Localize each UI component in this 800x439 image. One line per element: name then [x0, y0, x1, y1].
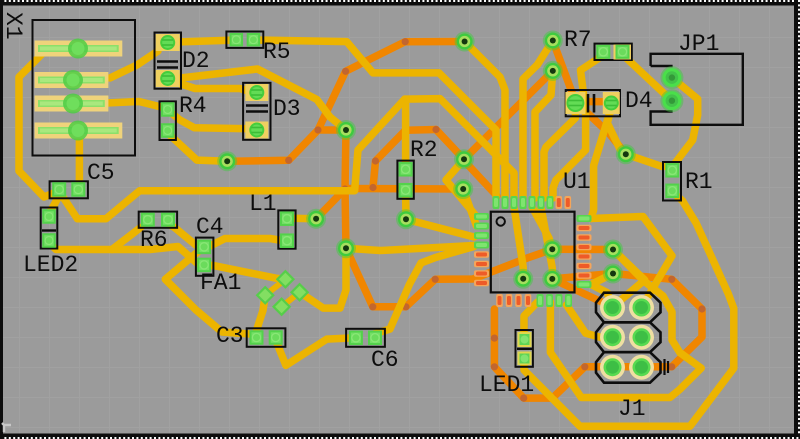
via V12 [336, 120, 356, 140]
capacitor C3 [247, 328, 286, 347]
junction dot [369, 184, 376, 191]
svg-text:R4: R4 [179, 93, 207, 119]
connector X1 [33, 20, 136, 156]
svg-text:D4: D4 [625, 88, 653, 114]
wire T3 to U1 top pad 3 [405, 99, 514, 198]
wire via V5 wrap around J1 to U1 bottom pad [550, 250, 701, 398]
wire C4 top to L1 bottom pad [210, 239, 285, 247]
wire C5 left valley then long horizontal rising to T3 [59, 99, 405, 219]
diode D4 [566, 90, 620, 116]
wire R5 right to U1 top pad 1 [255, 40, 496, 198]
wire via V11 to U1 left pad row2 [463, 189, 476, 226]
ic U1 body [491, 212, 575, 293]
svg-text:C6: C6 [371, 347, 399, 373]
svg-text:JP1: JP1 [678, 31, 719, 57]
junction dot [341, 185, 348, 192]
wire C4 bottom to FA1 diamond N [206, 265, 285, 279]
junction dot [581, 363, 588, 370]
wire via V6 through U1 pad to J1 pin1 [591, 274, 613, 308]
via V9 [513, 269, 533, 289]
wire R7 left down to U1 top pad 8 [553, 55, 604, 198]
junction dot [491, 335, 498, 342]
wire outer loop R1 bottom around to LED1 bottom [524, 192, 734, 426]
junction dot [520, 395, 527, 402]
wire via Va to U1 left pad row1 [446, 159, 477, 216]
wire D2 bottom to D3 top pad [172, 81, 250, 92]
svg-text:R2: R2 [410, 137, 438, 163]
wire FA1 diamond E to via V13 [300, 248, 346, 308]
wire orange via V3 diagonal to via Va [464, 71, 553, 159]
svg-text:R7: R7 [564, 27, 592, 53]
wire via V2 to U1 top pad 4 [523, 41, 553, 199]
junction dot [372, 157, 379, 164]
wire orange J1 row3 to U1 bottom pads [494, 309, 584, 398]
wire D4 right pad to via V4 [607, 106, 626, 154]
svg-text:C3: C3 [216, 323, 244, 349]
wire R6 right to C4 top pad [170, 225, 202, 247]
svg-text:FA1: FA1 [200, 270, 241, 296]
via V15 [217, 151, 237, 171]
wire U1 bottom pad to LED1 top [524, 302, 538, 334]
junction dot [402, 303, 409, 310]
wire U1 pad to inner via V7 [532, 207, 552, 249]
wire D4 left pad down to U1 top pad 6 [544, 105, 575, 198]
wire FA1 pair B [282, 292, 300, 307]
wire R1 top to JP1 top pad [672, 78, 698, 166]
wire X1 pad3 to R4 top pad [106, 102, 168, 109]
wire orange V8 to J1 pin1 [552, 279, 612, 307]
wire via V13 to U1 left pad row4 [346, 246, 474, 251]
wire U1 pad to inner via V9 [514, 207, 523, 279]
connector J1 [596, 293, 661, 323]
via V14 [306, 209, 326, 229]
wire U1 right pad1 to J1 pin2 [591, 217, 672, 308]
wire orange D4 to via V4 [575, 102, 625, 155]
junction dot [285, 157, 292, 164]
wire C3 right to C6 left pad [276, 338, 350, 365]
wire C6 right up to U1 left pad [374, 247, 474, 335]
fuse FA1 pads [256, 286, 275, 305]
svg-text:D2: D2 [182, 48, 210, 74]
wire orange D4 left to right pad [575, 98, 611, 106]
svg-text:R6: R6 [140, 227, 168, 253]
connector JP1 [651, 54, 743, 125]
wire U1 bottom pad to J1 pin3 [567, 305, 613, 338]
pad JP1 pin2 [660, 89, 683, 112]
junction dot [698, 305, 705, 312]
via V11 [453, 179, 473, 199]
via V7 [542, 239, 562, 259]
svg-text:LED2: LED2 [23, 252, 78, 278]
wire R7 right to JP1 bottom pad [623, 55, 672, 101]
junction dot [432, 276, 439, 283]
wire D2 top pad to R5 left pad [176, 40, 237, 42]
wire R4 top to D3 bottom pad [170, 112, 250, 129]
wire R4 bottom to via V15 [168, 133, 228, 161]
resistor R6 [139, 212, 177, 228]
wire L1 top to via V14 [290, 214, 316, 222]
wire U1 pad to inner via V8 [541, 207, 552, 279]
wire orange Ja down to via V13 [345, 189, 346, 248]
wire FA1 pair A [265, 279, 285, 295]
origin marker [2, 423, 11, 432]
wire orange V8 via V6 around to J1 row3 [552, 274, 702, 367]
pad JP1 pin1 [660, 66, 683, 89]
via V2 [543, 31, 563, 51]
capacitor C4 [196, 238, 214, 276]
wire X1 pad1 to C5 left pad [19, 44, 59, 197]
svg-text:C5: C5 [87, 160, 115, 186]
wire orange V12 down to junction Ja [345, 130, 346, 189]
wire orange V13 snake to via V7 [346, 248, 552, 306]
junction dot [314, 126, 321, 133]
resistor R2 [397, 161, 413, 199]
wire orange dot chain near R2 [373, 130, 436, 188]
board edge dashed border [0, 0, 800, 6]
svg-text:U1: U1 [563, 169, 591, 195]
wire LED2 bottom valley to C4 bottom pad [49, 243, 204, 265]
wire LED2 top to C5 left pad [49, 191, 59, 214]
led LED2 [41, 208, 58, 249]
wire X1 pad4 down to C5 right pad [76, 132, 84, 187]
via V1 [455, 32, 475, 52]
wire orange V7 to V5 [552, 246, 613, 254]
led LED1 [516, 330, 533, 367]
svg-text:J1: J1 [618, 396, 646, 422]
wire R2 bottom to via V10 [402, 194, 410, 219]
junction dot [402, 38, 409, 45]
svg-text:LED1: LED1 [479, 372, 534, 398]
wire X1 pad2 to D2 top pad [110, 51, 158, 78]
svg-text:D3: D3 [273, 96, 301, 122]
wire C3 left to FA1 diamond W [257, 295, 266, 330]
wire via V4 to R1 top pad [626, 154, 670, 166]
capacitor C6 [346, 329, 385, 347]
junction dot [668, 276, 675, 283]
wire orange net1: via V1 to via V12 [318, 42, 465, 131]
inductor L1 [278, 210, 295, 248]
resistor R4 [160, 101, 176, 140]
wire via V1 to U1 top pad 2 [465, 42, 505, 199]
svg-text:L1: L1 [249, 191, 277, 217]
via Va [454, 149, 474, 169]
svg-text:X1: X1 [0, 12, 26, 40]
resistor R1 [663, 162, 681, 201]
via V8 [542, 269, 562, 289]
resistor R7 [595, 44, 632, 60]
wire via V5 V to J1 pin1 [613, 250, 645, 308]
junction dot [491, 363, 498, 370]
diode D3 [243, 83, 270, 140]
via V13 [336, 238, 356, 258]
wire C4 top to C3 left pad [165, 250, 250, 334]
wire via V3 to U1 top pad 5 [535, 71, 553, 198]
junction dot [432, 126, 439, 133]
capacitor C5 [50, 181, 88, 198]
junction dot [342, 68, 349, 75]
via V3 [543, 61, 563, 81]
wire orange Ja right under R2 to via V11 [345, 185, 463, 193]
via V4 [616, 144, 636, 164]
ic U1 pads [493, 196, 500, 209]
resistor R5 [226, 32, 263, 48]
via V6 [603, 264, 623, 284]
wire branch to R6 left pad [112, 228, 141, 250]
junction dot [402, 127, 409, 134]
junction dot [668, 363, 675, 370]
wire D4 right down to U1 right pad 1 [591, 106, 612, 219]
svg-text:R1: R1 [685, 169, 713, 195]
diode D2 [155, 33, 182, 89]
svg-text:C4: C4 [196, 214, 224, 240]
junction dot [549, 395, 556, 402]
wire orange via V2 to D4 left pad [553, 41, 576, 102]
wire D2 bottom over D3 to via V12 [172, 69, 346, 130]
wire orange net1 branch to via V15 [227, 130, 318, 161]
wire orange Ja to via V14 [316, 189, 345, 219]
wire orange via Va to U1 corner [464, 159, 497, 196]
via V10 [396, 209, 416, 229]
wire R2 top vertical [402, 99, 410, 165]
wire orange dot to via Va [436, 130, 464, 160]
wire via V10 to U1 left pad row3 [406, 219, 474, 237]
junction dot [369, 303, 376, 310]
svg-text:R5: R5 [263, 39, 291, 65]
via V5 [603, 240, 623, 260]
